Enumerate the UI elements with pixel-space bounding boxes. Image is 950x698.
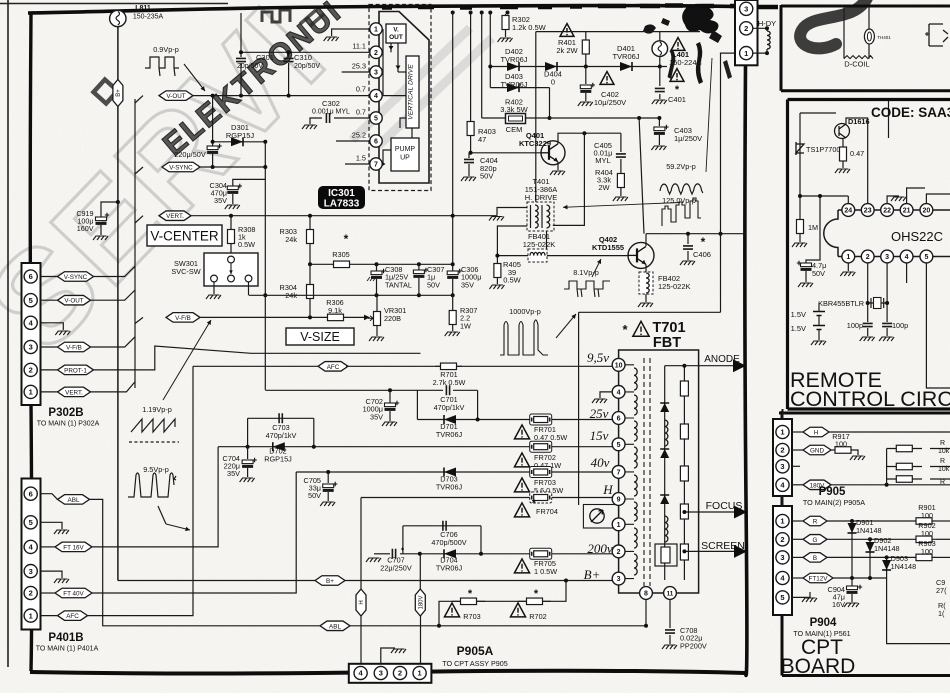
P302B pin 5 [24, 294, 37, 307]
svg-text:FT12V: FT12V [809, 575, 829, 582]
T701 primary windings [634, 368, 637, 390]
svg-text:OUT: OUT [389, 34, 403, 41]
svg-text:1.19Vp-p: 1.19Vp-p [142, 405, 172, 414]
net flag B P904 pin3 [792, 556, 804, 558]
svg-text:BOARD: BOARD [781, 655, 856, 678]
svg-text:CODE: SAA30(: CODE: SAA30( [871, 105, 950, 120]
svg-text:35V: 35V [227, 469, 240, 478]
diode D902 [869, 539, 871, 578]
wire 25V feed row [265, 389, 443, 391]
svg-text:6: 6 [29, 489, 33, 498]
wire CEM row [481, 13, 483, 118]
svg-text:R: R [813, 518, 818, 525]
svg-text:21: 21 [903, 208, 911, 215]
svg-text:*: * [534, 588, 539, 600]
resistor R304 [309, 264, 311, 284]
T701 pin 7 [612, 466, 625, 479]
diode D301 [213, 141, 266, 143]
wire FT16V run [92, 447, 218, 547]
svg-text:SCREEN: SCREEN [701, 540, 745, 552]
svg-text:OHS22C: OHS22C [891, 229, 943, 244]
IC301 pin7 wire [345, 163, 370, 165]
svg-text:6: 6 [617, 416, 621, 423]
T701 pin 4 [612, 386, 625, 399]
diode D401 [620, 62, 632, 71]
wire V-OUT to IC301 pin4 [193, 95, 370, 97]
svg-text:4: 4 [617, 389, 621, 396]
svg-text:150-224C: 150-224C [669, 58, 703, 67]
wire H row [361, 497, 619, 499]
svg-text:2: 2 [866, 254, 870, 261]
resistor R302 [505, 14, 507, 15]
svg-text:2: 2 [617, 549, 621, 556]
svg-text:H: H [359, 600, 365, 604]
OHS220 pin2 wire [867, 263, 869, 322]
svg-text:1N4148: 1N4148 [891, 562, 917, 571]
diode D404 [545, 62, 557, 71]
diode D403 [490, 87, 549, 89]
svg-text:1: 1 [744, 49, 748, 58]
svg-text:20p/50V: 20p/50V [237, 63, 263, 70]
svg-text:R702: R702 [529, 612, 546, 621]
net flag GND P905 pin2 [792, 449, 804, 451]
resistor R917 [831, 449, 835, 451]
P302B pin 4 [24, 316, 37, 329]
wire remote top net [800, 112, 836, 114]
net flag V-F/B P302B pin3 [40, 346, 57, 348]
OHS220 pin 21 [900, 204, 913, 217]
fuse resistor FR705 [530, 548, 552, 559]
capacitor C702 [389, 390, 391, 403]
svg-text:10k: 10k [938, 448, 950, 455]
svg-text:VERT.: VERT. [65, 389, 83, 396]
svg-text:C301: C301 [256, 53, 274, 62]
T701 anode junction [665, 365, 685, 367]
capacitor 100p right [882, 323, 892, 326]
svg-text:R: R [940, 458, 945, 465]
capacitor 220u/50V [212, 96, 214, 146]
wire T401 bottom row [497, 226, 527, 256]
flyback transformer T701 outline [619, 350, 699, 593]
svg-text:35V: 35V [370, 412, 383, 421]
svg-text:2: 2 [29, 589, 33, 598]
ferrite bead FB402 [645, 264, 647, 272]
svg-text:11.1: 11.1 [352, 42, 366, 51]
svg-text:TVR06J: TVR06J [436, 483, 463, 492]
OHS220 pin 3 [881, 250, 894, 263]
net flag AFC [193, 365, 320, 367]
IC301 PUMP UP block [391, 138, 419, 171]
resistor 0.47 [842, 138, 844, 147]
ground P905A pin3 [381, 648, 395, 664]
svg-text:1.5: 1.5 [356, 154, 366, 163]
OHS220 pin 22 [881, 204, 894, 217]
svg-text:TANTAL: TANTAL [385, 280, 412, 289]
wire B row / resistor R903 [827, 556, 912, 558]
net pill H [360, 498, 362, 590]
potentiometer VR301 [376, 311, 378, 326]
net flag V-SYNC top [135, 167, 143, 174]
scan ink blobs top middle [682, 4, 718, 34]
svg-text:TVR06J: TVR06J [500, 55, 527, 64]
P905 pin 2 [776, 443, 789, 456]
diode D701 [417, 419, 618, 421]
OHS220 pin 24 [842, 204, 855, 217]
svg-text:100: 100 [921, 547, 933, 556]
ceramic resonator KBR455BTLR [868, 302, 887, 304]
svg-text:P905A: P905A [457, 644, 494, 658]
T701 pin 9 [612, 493, 625, 506]
resistor R401 [585, 32, 587, 40]
capacitor C704 [247, 447, 249, 459]
OHS220 pin 1 [842, 250, 855, 263]
svg-text:100p: 100p [892, 321, 908, 330]
svg-text:TVR06J: TVR06J [436, 430, 463, 439]
svg-text:KBR455BTLR: KBR455BTLR [818, 299, 864, 308]
svg-text:9,5v: 9,5v [587, 350, 609, 365]
capacitor C306 [452, 13, 454, 271]
wire collector to T401 secondary [553, 133, 585, 225]
IC301 pin 2 [370, 46, 382, 58]
annotation arrow to V-F/B [163, 320, 211, 400]
svg-text:ABL: ABL [68, 497, 80, 504]
net flag R P904 pin1 [792, 520, 804, 522]
resistor R702 [518, 600, 551, 602]
svg-text:3: 3 [617, 576, 621, 583]
svg-text:180V: 180V [419, 595, 425, 609]
deflection board outline top right [781, 5, 950, 91]
svg-text:1 0.5W: 1 0.5W [534, 567, 557, 576]
svg-text:R: R [940, 479, 945, 486]
wire D403 down to CEM row [549, 88, 551, 118]
net pill 180V [419, 554, 421, 589]
IC301 V OUT block [386, 24, 406, 43]
svg-text:1.5V: 1.5V [791, 310, 806, 319]
wire collector net [646, 233, 746, 235]
connector P905A [349, 664, 432, 683]
wire top rail R401-L401 [536, 31, 700, 33]
wire remote top right [888, 101, 890, 138]
svg-text:25v: 25v [590, 406, 609, 421]
svg-text:15v: 15v [590, 428, 609, 443]
svg-text:100: 100 [835, 440, 847, 449]
svg-text:KTD1555: KTD1555 [592, 243, 624, 252]
OHS220 pin22 ground [887, 196, 899, 204]
fuse resistor FR704 [530, 492, 552, 503]
svg-text:R305: R305 [332, 250, 349, 259]
svg-text:GND: GND [810, 447, 824, 454]
svg-text:TO MAIN (1) P401A: TO MAIN (1) P401A [36, 646, 99, 653]
transistor D1616 [835, 124, 850, 139]
svg-text:0.5W: 0.5W [503, 276, 521, 285]
svg-text:MYL: MYL [595, 156, 610, 165]
ground P302B pin4 [40, 323, 63, 330]
svg-text:100: 100 [921, 511, 933, 520]
svg-text:D-COIL: D-COIL [844, 60, 869, 69]
svg-text:V-F/B: V-F/B [175, 315, 191, 322]
wire R702/R703 row [439, 581, 566, 626]
connector H-DY [735, 0, 758, 65]
svg-text:100: 100 [921, 529, 933, 538]
capacitor C706 bridge [403, 525, 481, 527]
svg-text:50V: 50V [480, 172, 493, 181]
svg-text:V.: V. [393, 27, 399, 34]
svg-text:2W: 2W [598, 183, 610, 192]
deflection coil D-COIL [843, 6, 845, 59]
fuse resistor FR701 [530, 414, 552, 425]
svg-text:V-SIZE: V-SIZE [300, 330, 340, 344]
svg-text:0: 0 [551, 78, 555, 87]
diode D901 [851, 521, 853, 578]
P905A pin 3 [374, 666, 387, 679]
svg-text:1: 1 [780, 517, 784, 526]
wire D1616 collector to IC pin23 [846, 118, 868, 204]
OHS220 pin1 ground [847, 263, 849, 271]
P905 pin 1 [776, 425, 789, 438]
svg-text:V-OUT: V-OUT [64, 298, 83, 305]
svg-text:6: 6 [374, 139, 378, 146]
svg-text:1: 1 [29, 388, 33, 397]
capacitor C308 tantal [376, 264, 378, 271]
scribble squarewave watermark top [262, 10, 290, 22]
svg-text:3: 3 [29, 567, 33, 576]
svg-text:5: 5 [29, 296, 33, 305]
IC301 pin 5 [370, 112, 382, 124]
P904 pin 5 [776, 591, 789, 604]
svg-text:24: 24 [844, 208, 852, 215]
P905 pin 4 [776, 478, 789, 491]
wire top rail to D402 node [489, 13, 491, 88]
wire VERT net [191, 215, 497, 217]
annotation arrow 1000Vp-p [556, 314, 576, 338]
OHS220 pin5 wire [926, 263, 950, 388]
svg-text:470p/1kV: 470p/1kV [266, 431, 297, 440]
T701 secondary coils [665, 420, 668, 446]
wire D903 column down [887, 578, 950, 644]
wire collector enclosure [720, 234, 722, 313]
watermark ELEKTROTANYA (dark diagonal) [93, 79, 117, 103]
svg-text:9.1k: 9.1k [328, 306, 342, 315]
wire G row / resistor R902 [827, 538, 912, 540]
wire 200V row [400, 553, 619, 555]
IC301 VERTICAL DRIVE block [406, 56, 419, 128]
svg-text:T701: T701 [652, 320, 685, 336]
P401B pin 6 [24, 487, 37, 500]
OHS220 pin 4 [900, 250, 913, 263]
P401B pin 3 [24, 565, 37, 578]
svg-text:2: 2 [374, 50, 378, 57]
svg-text:V-OUT: V-OUT [166, 93, 185, 100]
svg-text:3: 3 [744, 5, 748, 14]
wire T401 left ground stub [497, 208, 527, 216]
capacitor C404 [468, 153, 470, 158]
P302B pin 1 [24, 385, 37, 398]
svg-text:PROT-1: PROT-1 [64, 367, 87, 374]
svg-text:AFC: AFC [66, 613, 79, 620]
svg-text:0.47: 0.47 [850, 149, 864, 158]
wire AFC riser [88, 366, 194, 615]
svg-text:P401B: P401B [48, 632, 83, 644]
IC301 part label badge [318, 186, 365, 209]
svg-text:160V: 160V [77, 224, 94, 233]
svg-text:V-SYNC: V-SYNC [64, 274, 88, 281]
svg-text:1: 1 [780, 428, 784, 437]
svg-text:23: 23 [864, 208, 872, 215]
svg-text:1W: 1W [460, 321, 471, 330]
svg-text:C310: C310 [294, 53, 312, 62]
svg-text:1: 1 [617, 522, 621, 529]
capacitor C406 [687, 234, 689, 244]
svg-text:FT 40V: FT 40V [63, 590, 84, 597]
svg-text:470p/500V: 470p/500V [431, 538, 466, 547]
T701 HV divider column [683, 366, 685, 580]
svg-text:TO CPT ASSY P905: TO CPT ASSY P905 [442, 659, 508, 668]
wire H-DY drop [721, 53, 740, 234]
net flag FT12V P904 pin4 [792, 577, 804, 579]
wire 40V row [296, 471, 618, 473]
P904 pin 1 [776, 514, 789, 527]
svg-text:5: 5 [29, 518, 33, 527]
svg-text:1M: 1M [808, 223, 818, 232]
svg-text:27(: 27( [936, 586, 947, 595]
svg-text:20p/50V: 20p/50V [294, 63, 320, 70]
P904 pin 4 [776, 571, 789, 584]
svg-text:1(: 1( [938, 609, 945, 618]
watermark SERVICE (light gray diagonal) [0, 0, 354, 377]
svg-text:VERT.: VERT. [166, 213, 184, 220]
net flag VERT P302B pin1 [40, 391, 57, 393]
wire B+ row [118, 580, 619, 582]
svg-text:7: 7 [617, 469, 621, 476]
svg-text:1: 1 [374, 27, 378, 34]
svg-text:B+: B+ [584, 567, 601, 582]
resistors 10k stack right [886, 449, 888, 485]
wire ABL riser [90, 499, 323, 625]
wire Q401 collector [558, 133, 621, 144]
svg-text:H: H [814, 429, 819, 436]
svg-text:470p/1kV: 470p/1kV [434, 403, 465, 412]
svg-text:7: 7 [374, 162, 378, 169]
P905A pin 1 [413, 666, 426, 679]
svg-text:50V: 50V [812, 269, 825, 278]
wire R305 row to C306/C307 [377, 263, 453, 265]
wire CEM row to Q402 collector [639, 118, 644, 234]
watermark S swoosh top right [800, 0, 868, 48]
net flag VERT top [135, 216, 143, 223]
svg-text:RGP15J: RGP15J [226, 131, 255, 140]
svg-text:TVR06J: TVR06J [436, 564, 463, 573]
svg-text:10: 10 [615, 362, 623, 369]
net flag ABL mid [320, 621, 350, 631]
annotation arrow from 9.5Vp-p [158, 506, 166, 524]
svg-text:P302B: P302B [48, 407, 83, 419]
T701 screen pot [655, 544, 677, 566]
svg-text:1.5V: 1.5V [791, 324, 806, 333]
resistor 1M [799, 196, 801, 219]
H-DY connector pin 1 [740, 47, 753, 60]
OHS220 pin 23 [861, 204, 874, 217]
svg-text:50V: 50V [427, 280, 440, 289]
capacitor C403 [658, 118, 660, 126]
battery 1.5V x2 [813, 312, 825, 330]
IC301 pin 1 [370, 23, 382, 35]
svg-text:H: H [602, 482, 613, 497]
svg-text:9.5Vp-p: 9.5Vp-p [143, 465, 169, 474]
P905A pin 2 [393, 666, 406, 679]
svg-text:IC301: IC301 [328, 188, 355, 199]
svg-text:4: 4 [905, 254, 909, 261]
thermistor deflection [864, 29, 874, 44]
wire mid row [249, 294, 453, 296]
svg-text:2: 2 [29, 366, 33, 375]
label V-CENTER box [147, 225, 222, 246]
svg-text:R: R [940, 440, 945, 447]
svg-text:35V: 35V [214, 196, 227, 205]
svg-text:8.1Vp-p: 8.1Vp-p [573, 268, 599, 277]
svg-text:3: 3 [780, 553, 784, 562]
svg-text:24k: 24k [285, 235, 297, 244]
wire ABL row right [322, 625, 646, 627]
capacitor C402 [585, 67, 587, 85]
capacitor C310 [288, 52, 290, 57]
svg-text:TVR06J: TVR06J [612, 52, 639, 61]
svg-text:LA7833: LA7833 [324, 199, 360, 210]
svg-text:1.2k 0.5W: 1.2k 0.5W [512, 23, 547, 32]
wire D402 row [490, 66, 667, 68]
svg-text:*: * [701, 235, 706, 249]
T701 pin 1 [612, 518, 625, 531]
svg-text:R703: R703 [463, 612, 480, 621]
capacitor C703 bridge [248, 417, 314, 419]
component stub right edge [929, 24, 948, 46]
svg-text:VERTICAL DRIVE: VERTICAL DRIVE [408, 64, 415, 120]
diode D702 [218, 446, 532, 448]
connector P905 [782, 409, 784, 419]
P401B pin 5 [24, 516, 37, 529]
ground P904 pin5 [792, 592, 810, 597]
svg-text:20: 20 [923, 208, 931, 215]
P401B pin 4 [24, 540, 37, 553]
wire T401 secondary to FB401 [546, 231, 548, 256]
svg-text:V-SYNC: V-SYNC [169, 164, 193, 171]
svg-text:UP: UP [400, 155, 410, 162]
resistor R306 [310, 316, 366, 318]
svg-text:0.9Vp-p: 0.9Vp-p [153, 45, 179, 54]
T701 pin 10 [612, 358, 625, 371]
svg-text:SVC-SW: SVC-SW [171, 267, 200, 276]
coil L811 [110, 10, 126, 26]
T701 pin 5 [612, 438, 625, 451]
svg-text:10k: 10k [938, 466, 950, 473]
wire R row / resistor R901 [827, 520, 912, 522]
svg-text:KTC3229: KTC3229 [519, 139, 551, 148]
CPT board outline [779, 411, 950, 676]
IC OHS220 remote receiver [824, 210, 950, 257]
main board border frame [28, 6, 737, 13]
svg-text:FR704: FR704 [536, 507, 558, 516]
svg-text:2k 2W: 2k 2W [556, 46, 578, 55]
svg-text:ABL: ABL [329, 623, 341, 630]
switch SW301 service switch [204, 253, 258, 286]
P302B pin 2 [24, 363, 37, 376]
capacitor C301 [240, 13, 242, 57]
svg-text:G: G [813, 537, 818, 544]
IC301 internal wires [390, 43, 392, 52]
svg-text:P905: P905 [819, 486, 846, 498]
resistor R303 [309, 216, 311, 229]
svg-text:16V: 16V [832, 600, 845, 609]
svg-text:TO MAIN (1) P302A: TO MAIN (1) P302A [37, 421, 100, 428]
